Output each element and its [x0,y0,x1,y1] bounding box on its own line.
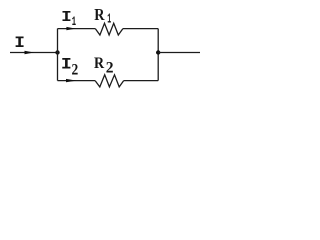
svg-text:I: I [61,57,72,74]
wire: top branch right segment [123,28,158,30]
svg-text:2: 2 [106,59,114,76]
arrow: current I2 direction [66,79,76,82]
svg-text:1: 1 [107,12,111,27]
wire: main input lead [10,52,58,54]
wire: output lead [158,52,200,54]
label R1 [94,6,105,24]
wire: left vertical bus [57,29,59,81]
label R2 [94,55,105,72]
label I [14,35,25,53]
svg-text:R: R [94,6,105,24]
resistor R2 [95,75,124,87]
wire: bottom branch right segment [124,80,159,82]
node B: right junction dot [156,50,160,54]
node A: left junction dot [55,50,59,54]
arrow: current I1 direction [66,27,75,30]
svg-text:R: R [94,55,105,72]
arrow: current I direction [25,51,34,54]
wire: right vertical bus [157,29,159,81]
svg-text:I: I [61,8,72,25]
wire: top branch left segment [58,28,96,30]
resistor R1 [95,23,123,35]
svg-text:1: 1 [72,15,76,30]
label I1 [61,8,72,25]
svg-text:2: 2 [72,62,79,79]
svg-text:I: I [14,35,25,53]
wire: bottom branch left segment [58,80,96,82]
label I2 [61,57,72,74]
